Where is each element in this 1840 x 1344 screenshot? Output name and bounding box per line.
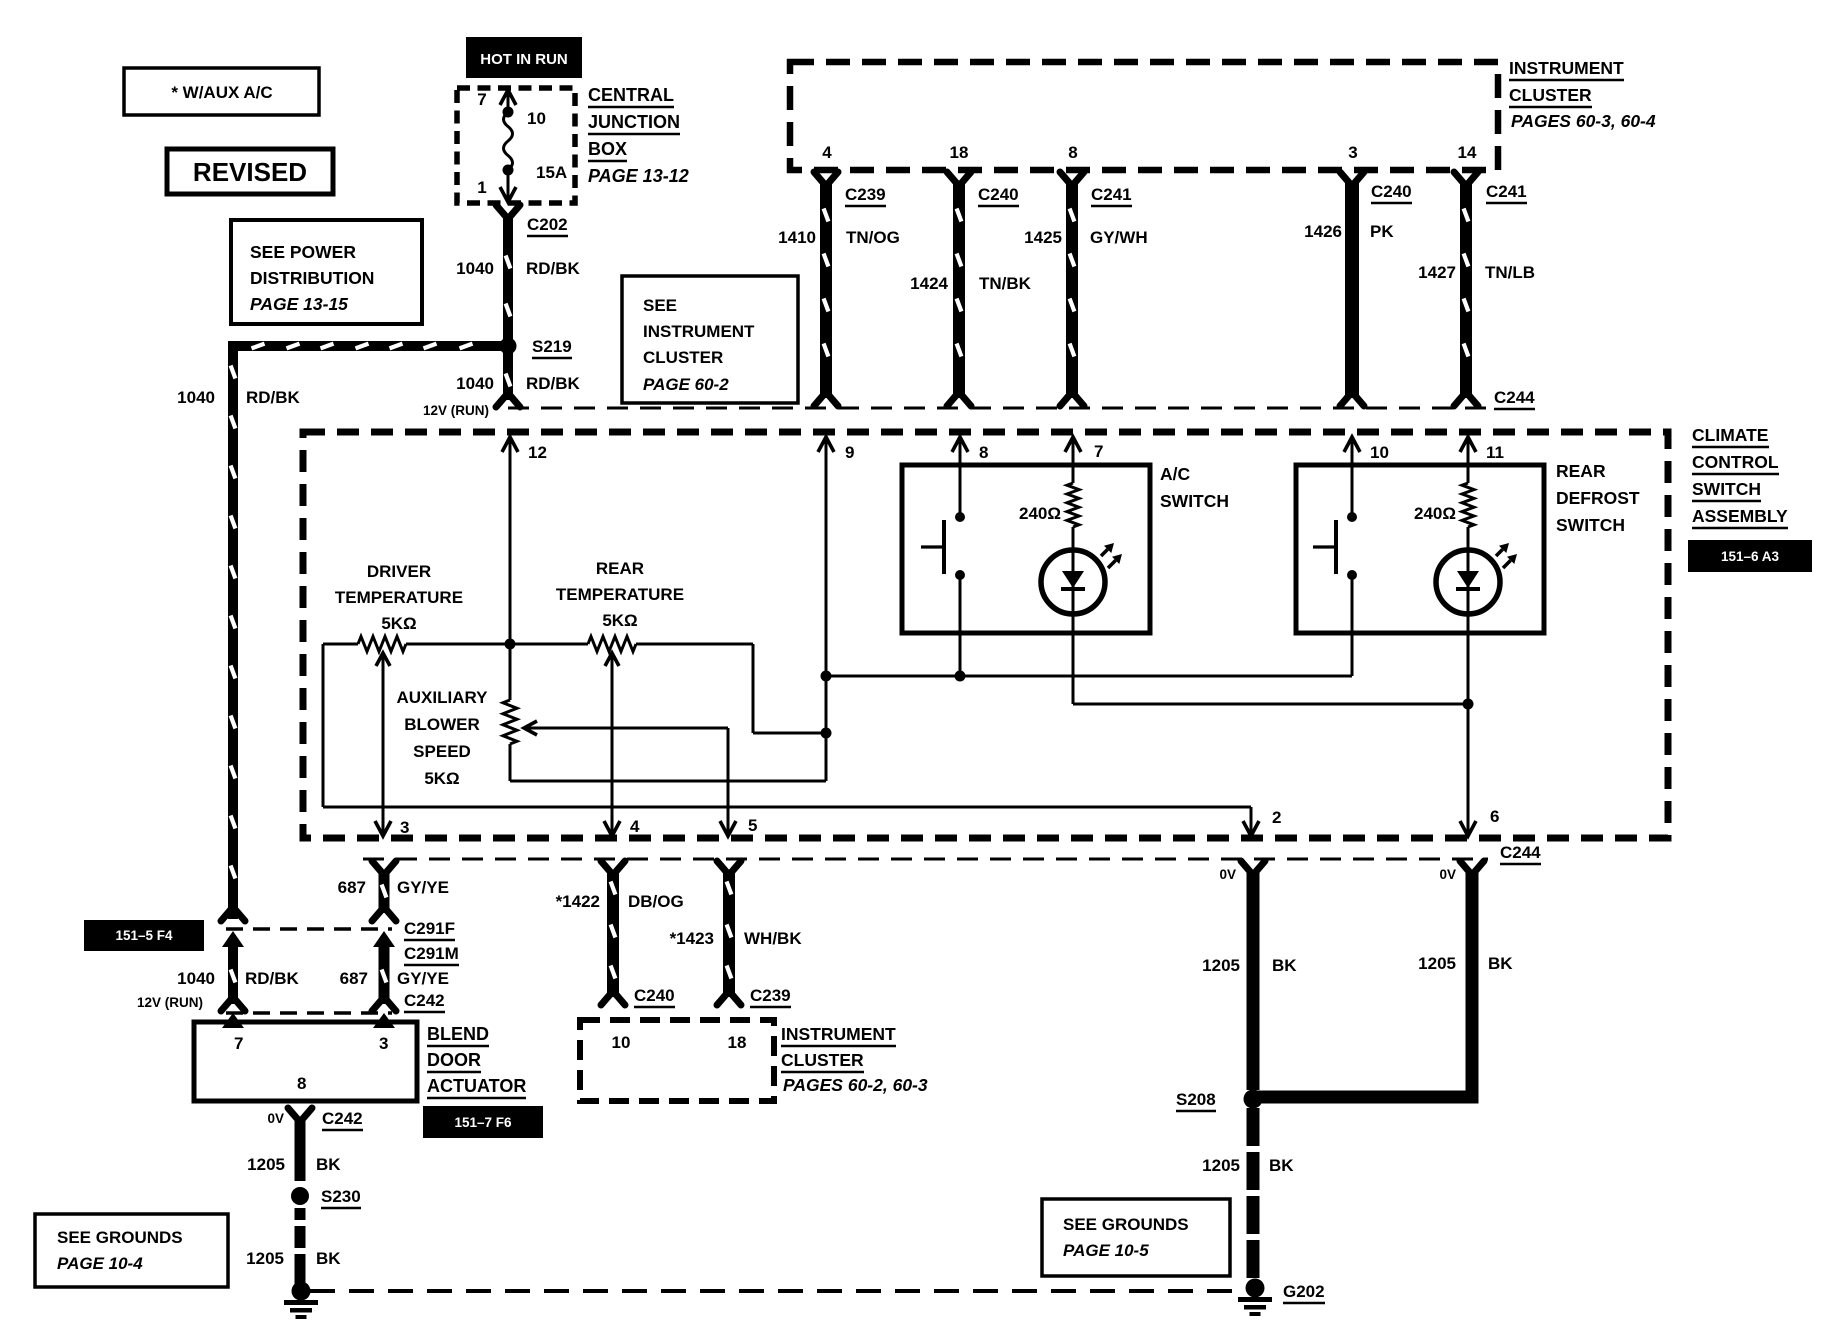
wire 687 GY/YE (pin 3 to C291F) bbox=[372, 861, 396, 921]
svg-text:INSTRUMENT: INSTRUMENT bbox=[781, 1024, 896, 1044]
svg-text:6: 6 bbox=[1490, 807, 1499, 826]
box SEE POWER DISTRIBUTION PAGE 13-15 bbox=[231, 220, 422, 324]
label 687 (upper) bbox=[338, 878, 366, 897]
junction (pin9 bus) bbox=[821, 671, 832, 682]
svg-text:C244: C244 bbox=[1500, 843, 1541, 862]
svg-text:SWITCH: SWITCH bbox=[1160, 491, 1229, 511]
svg-text:HOT IN RUN: HOT IN RUN bbox=[480, 51, 568, 68]
label *1422 bbox=[556, 892, 600, 911]
svg-text:INSTRUMENT: INSTRUMENT bbox=[643, 322, 755, 341]
pin 3 label (actuator) bbox=[379, 1034, 388, 1053]
svg-text:4: 4 bbox=[630, 817, 640, 836]
svg-text:GY/WH: GY/WH bbox=[1090, 228, 1148, 247]
label REAR DEFROST SWITCH bbox=[1556, 461, 1640, 535]
pin 9 (climate) bbox=[818, 437, 854, 733]
svg-text:RD/BK: RD/BK bbox=[526, 259, 581, 278]
svg-text:SEE POWER: SEE POWER bbox=[250, 242, 356, 262]
svg-text:TN/LB: TN/LB bbox=[1485, 263, 1535, 282]
wire driver temp end to pin 2 bbox=[323, 644, 1259, 836]
svg-text:DRIVER: DRIVER bbox=[367, 562, 431, 581]
label CLIMATE CONTROL SWITCH ASSEMBLY bbox=[1692, 425, 1788, 528]
svg-text:2: 2 bbox=[1272, 808, 1281, 827]
wire 1040 RD/BK (C291M to C242) bbox=[221, 931, 245, 1011]
svg-text:A/C: A/C bbox=[1160, 464, 1191, 484]
svg-text:240Ω: 240Ω bbox=[1019, 504, 1061, 523]
svg-text:C240: C240 bbox=[634, 986, 675, 1005]
note box W/AUX A/C bbox=[124, 68, 319, 115]
wire 1425 GY/WH (cluster pin 8 to C244) bbox=[1060, 172, 1084, 406]
svg-text:0V: 0V bbox=[267, 1111, 284, 1126]
pin 11 (climate) bbox=[1460, 437, 1504, 483]
svg-text:PAGE 10-5: PAGE 10-5 bbox=[1063, 1241, 1149, 1260]
potentiometer REAR TEMPERATURE 5K bbox=[556, 559, 684, 652]
svg-text:C291F: C291F bbox=[404, 919, 455, 938]
resistor 240 ohm (rear defrost) bbox=[1414, 483, 1474, 550]
svg-text:TN/BK: TN/BK bbox=[979, 274, 1032, 293]
svg-text:BLOWER: BLOWER bbox=[404, 715, 480, 734]
rear defrost switch button bbox=[1313, 512, 1357, 676]
pin 4 label (climate) bbox=[630, 817, 640, 836]
svg-text:SPEED: SPEED bbox=[413, 742, 471, 761]
label 1205 (pin 6 wire) bbox=[1418, 954, 1456, 973]
svg-text:5KΩ: 5KΩ bbox=[602, 611, 637, 630]
svg-text:14: 14 bbox=[1458, 143, 1477, 162]
connector C244 label (top) bbox=[1494, 388, 1535, 409]
ground G202 bbox=[1238, 1279, 1272, 1317]
pin 18 label (cluster) bbox=[950, 143, 969, 162]
label GY/YE (lower) bbox=[397, 969, 449, 988]
label CENTRAL JUNCTION BOX PAGE 13-12 bbox=[588, 85, 689, 186]
svg-text:CONTROL: CONTROL bbox=[1692, 452, 1779, 472]
label 1410 bbox=[778, 228, 816, 247]
label G202 bbox=[1283, 1282, 1325, 1303]
junction (pot return to pin9) bbox=[821, 728, 832, 739]
svg-text:5KΩ: 5KΩ bbox=[424, 769, 459, 788]
connector C242 label (bottom) bbox=[322, 1109, 363, 1130]
svg-text:TEMPERATURE: TEMPERATURE bbox=[556, 585, 684, 604]
svg-text:DB/OG: DB/OG bbox=[628, 892, 684, 911]
svg-text:1040: 1040 bbox=[456, 259, 494, 278]
label TN/LB bbox=[1485, 263, 1535, 282]
label RD/BK (lower) bbox=[245, 969, 300, 988]
fuse rating 15A bbox=[536, 163, 567, 182]
label BK (pin 6 wire) bbox=[1488, 954, 1513, 973]
pin 3 label (cluster) bbox=[1348, 143, 1357, 162]
pin 5 label (climate) bbox=[748, 816, 757, 835]
wire rear button drop bbox=[0, 0, 1, 1]
aux blower return wire bbox=[510, 733, 826, 781]
power label HOT IN RUN bbox=[466, 37, 582, 78]
pin 14 label (cluster) bbox=[1458, 143, 1477, 162]
svg-text:1205: 1205 bbox=[1202, 956, 1240, 975]
connector C241 label bbox=[1091, 185, 1132, 206]
LED indicator (rear defrost) bbox=[1436, 543, 1517, 704]
connector C242 label (top) bbox=[404, 991, 445, 1012]
wire 1040 RD/BK (S219 to C244) bbox=[503, 350, 513, 400]
pin 7 label (actuator) bbox=[234, 1034, 243, 1053]
svg-text:ASSEMBLY: ASSEMBLY bbox=[1692, 506, 1788, 526]
svg-text:PK: PK bbox=[1370, 222, 1394, 241]
label 1425 bbox=[1024, 228, 1062, 247]
svg-text:PAGES 60-2, 60-3: PAGES 60-2, 60-3 bbox=[783, 1075, 928, 1095]
svg-text:RD/BK: RD/BK bbox=[526, 374, 581, 393]
wire *1423 WH/BK (pin 5 to C239) bbox=[717, 861, 741, 1005]
pin 7 label (CJB) bbox=[477, 90, 486, 109]
svg-text:CLIMATE: CLIMATE bbox=[1692, 425, 1768, 445]
svg-text:DOOR: DOOR bbox=[427, 1050, 481, 1070]
svg-text:BLEND: BLEND bbox=[427, 1024, 489, 1044]
svg-text:C239: C239 bbox=[750, 986, 791, 1005]
rear defrost switch box bbox=[1296, 465, 1544, 633]
fuse F10 15A bbox=[500, 90, 516, 202]
svg-text:CLUSTER: CLUSTER bbox=[1509, 85, 1592, 105]
A/C switch box bbox=[902, 465, 1150, 633]
svg-text:CLUSTER: CLUSTER bbox=[781, 1050, 864, 1070]
label 1427 bbox=[1418, 263, 1456, 282]
pin 10 label (bottom cluster) bbox=[612, 1033, 631, 1052]
climate control switch assembly outline bbox=[303, 432, 1668, 838]
label S230 bbox=[321, 1187, 361, 1208]
svg-text:1205: 1205 bbox=[1418, 954, 1456, 973]
svg-text:SWITCH: SWITCH bbox=[1692, 479, 1761, 499]
wire 1426 PK (cluster pin 3 to C244) bbox=[1340, 172, 1364, 406]
label RD/BK (upper) bbox=[526, 259, 581, 278]
svg-text:1: 1 bbox=[477, 178, 486, 197]
svg-text:BOX: BOX bbox=[588, 139, 627, 159]
svg-text:PAGE 13-12: PAGE 13-12 bbox=[588, 166, 689, 186]
svg-text:BK: BK bbox=[1269, 1156, 1294, 1175]
rear temp wiper (to pin 4) bbox=[604, 653, 620, 836]
pin 18 label (bottom cluster) bbox=[728, 1033, 747, 1052]
label BLEND DOOR ACTUATOR bbox=[427, 1024, 526, 1098]
connector symbol at C244 pin 12 bbox=[496, 393, 520, 407]
label GY/YE (upper) bbox=[397, 878, 449, 897]
resistor track line (driver+rear temp) bbox=[323, 643, 753, 646]
junction (A/C button to bus) bbox=[955, 671, 966, 682]
svg-text:5KΩ: 5KΩ bbox=[381, 614, 416, 633]
pin 3 label (climate) bbox=[400, 818, 409, 837]
label 1205 (S230 upper) bbox=[247, 1155, 285, 1174]
svg-text:BK: BK bbox=[1272, 956, 1297, 975]
wire 1205 BK (pin 2 to S208) bbox=[1241, 861, 1265, 1090]
svg-text:C242: C242 bbox=[322, 1109, 363, 1128]
svg-text:240Ω: 240Ω bbox=[1414, 504, 1456, 523]
label 12V (RUN) (pin 12 feed) bbox=[423, 403, 489, 418]
grid tag 151-7 F6 bbox=[423, 1106, 543, 1138]
label DB/OG bbox=[628, 892, 684, 911]
svg-text:DEFROST: DEFROST bbox=[1556, 488, 1640, 508]
label 687 (lower) bbox=[340, 969, 368, 988]
svg-text:BK: BK bbox=[316, 1249, 341, 1268]
label BK (pin 2 wire) bbox=[1272, 956, 1297, 975]
pin 7 (climate) bbox=[1065, 437, 1103, 483]
label BK (S230 lower) bbox=[316, 1249, 341, 1268]
connector C241 label (pin 14) bbox=[1486, 182, 1527, 203]
svg-text:1040: 1040 bbox=[456, 374, 494, 393]
svg-text:1205: 1205 bbox=[246, 1249, 284, 1268]
svg-text:687: 687 bbox=[338, 878, 366, 897]
svg-text:CENTRAL: CENTRAL bbox=[588, 85, 674, 105]
svg-text:AUXILIARY: AUXILIARY bbox=[397, 688, 489, 707]
box SEE GROUNDS PAGE 10-5 bbox=[1042, 1199, 1230, 1276]
label 0V (actuator) bbox=[267, 1111, 284, 1126]
pin 10 (climate) bbox=[1344, 437, 1389, 517]
svg-text:S208: S208 bbox=[1176, 1090, 1216, 1109]
wire LED bus to pin 6 bbox=[1073, 704, 1476, 836]
svg-text:10: 10 bbox=[612, 1033, 631, 1052]
svg-text:C239: C239 bbox=[845, 185, 886, 204]
driver temp wiper (to pin 3) bbox=[375, 653, 391, 836]
svg-text:12V (RUN): 12V (RUN) bbox=[423, 403, 489, 418]
label S208 bbox=[1176, 1090, 1216, 1111]
connector C244 label (bottom) bbox=[1500, 843, 1541, 864]
wire 1040 RD/BK (C202 to S219) bbox=[503, 216, 513, 342]
svg-text:8: 8 bbox=[297, 1074, 306, 1093]
svg-text:8: 8 bbox=[1068, 143, 1077, 162]
pin 8 (climate) bbox=[952, 437, 988, 517]
pin 12 (climate) bbox=[502, 437, 547, 644]
connector C240 label bbox=[978, 185, 1019, 206]
pin 2 label (climate) bbox=[1272, 808, 1281, 827]
pin 8 label (actuator) bbox=[297, 1074, 306, 1093]
svg-text:3: 3 bbox=[1348, 143, 1357, 162]
svg-text:C240: C240 bbox=[978, 185, 1019, 204]
ground (left, body ground) bbox=[284, 1282, 318, 1320]
splice S208 bbox=[1244, 1090, 1263, 1109]
svg-text:SEE: SEE bbox=[643, 296, 677, 315]
svg-text:RD/BK: RD/BK bbox=[246, 388, 301, 407]
connector C240 label (bottom) bbox=[634, 986, 675, 1007]
svg-text:G202: G202 bbox=[1283, 1282, 1325, 1301]
svg-text:7: 7 bbox=[234, 1034, 243, 1053]
wire common bus (pin9 to switches) bbox=[826, 675, 1352, 678]
svg-text:1040: 1040 bbox=[177, 969, 215, 988]
connector line C291F/C291M bbox=[226, 927, 392, 931]
wire 1040 end at C291F bbox=[221, 907, 245, 921]
fuse number 10 bbox=[527, 109, 546, 128]
svg-text:RD/BK: RD/BK bbox=[245, 969, 300, 988]
resistor 240 ohm (A/C) bbox=[1019, 483, 1079, 550]
splice S230 bbox=[291, 1187, 309, 1205]
svg-text:BK: BK bbox=[1488, 954, 1513, 973]
svg-text:PAGE 13-15: PAGE 13-15 bbox=[250, 294, 348, 314]
label TN/OG bbox=[846, 228, 900, 247]
wire 1040 RD/BK (left vertical run) bbox=[228, 341, 238, 919]
svg-text:8: 8 bbox=[979, 443, 988, 462]
label INSTRUMENT CLUSTER PAGES 60-2, 60-3 bbox=[781, 1024, 928, 1095]
wire 1427 TN/LB (cluster pin 14 to C244) bbox=[1454, 172, 1478, 406]
connector C239 label (bottom) bbox=[750, 986, 791, 1007]
svg-text:GY/YE: GY/YE bbox=[397, 878, 449, 897]
svg-text:C202: C202 bbox=[527, 215, 568, 234]
svg-text:12: 12 bbox=[528, 443, 547, 462]
connector C202 label bbox=[527, 215, 568, 236]
svg-text:INSTRUMENT: INSTRUMENT bbox=[1509, 58, 1624, 78]
label INSTRUMENT CLUSTER PAGES 60-3, 60-4 bbox=[1509, 58, 1656, 131]
svg-text:CLUSTER: CLUSTER bbox=[643, 348, 723, 367]
svg-text:ACTUATOR: ACTUATOR bbox=[427, 1076, 526, 1096]
svg-text:PAGE 60-2: PAGE 60-2 bbox=[643, 375, 729, 394]
svg-text:151–5 F4: 151–5 F4 bbox=[115, 928, 173, 943]
label 1040 (at S219) bbox=[456, 374, 494, 393]
connector line C242 bbox=[226, 1011, 392, 1015]
svg-text:9: 9 bbox=[845, 443, 854, 462]
pin 4 label (cluster) bbox=[822, 143, 832, 162]
svg-text:TEMPERATURE: TEMPERATURE bbox=[335, 588, 463, 607]
svg-text:S219: S219 bbox=[532, 337, 572, 356]
connector C291F/C291M labels bbox=[404, 919, 459, 965]
wire 1205 BK (pin 6 to S208) bbox=[1253, 861, 1484, 1104]
svg-text:*1422: *1422 bbox=[556, 892, 600, 911]
svg-text:S230: S230 bbox=[321, 1187, 361, 1206]
svg-text:151–6 A3: 151–6 A3 bbox=[1721, 549, 1780, 564]
svg-text:REAR: REAR bbox=[1556, 461, 1606, 481]
label S219 bbox=[532, 337, 572, 358]
svg-text:10: 10 bbox=[1370, 443, 1389, 462]
svg-text:BK: BK bbox=[316, 1155, 341, 1174]
instrument cluster (top) outline bbox=[790, 62, 1498, 170]
svg-text:1424: 1424 bbox=[910, 274, 948, 293]
svg-text:4: 4 bbox=[822, 143, 832, 162]
potentiometer DRIVER TEMPERATURE 5K bbox=[335, 562, 463, 652]
svg-text:C241: C241 bbox=[1091, 185, 1132, 204]
svg-text:SEE GROUNDS: SEE GROUNDS bbox=[57, 1228, 183, 1247]
wire 1205 BK (S230 to G202) bbox=[295, 1208, 306, 1284]
label 1424 bbox=[910, 274, 948, 293]
junction (LED bus to pin 6) bbox=[1463, 699, 1474, 710]
svg-text:12V (RUN): 12V (RUN) bbox=[137, 995, 203, 1010]
svg-text:18: 18 bbox=[728, 1033, 747, 1052]
svg-text:7: 7 bbox=[477, 90, 486, 109]
svg-text:7: 7 bbox=[1094, 442, 1103, 461]
note box REVISED bbox=[167, 149, 333, 194]
label BK (S230 upper) bbox=[316, 1155, 341, 1174]
svg-text:15A: 15A bbox=[536, 163, 567, 182]
wire pot return (rear temp end down) bbox=[753, 644, 826, 733]
blend door actuator box bbox=[194, 1022, 417, 1101]
box SEE INSTRUMENT CLUSTER PAGE 60-2 bbox=[622, 276, 798, 403]
connector C242 symbol (below actuator) bbox=[288, 1108, 312, 1122]
wire 1424 TN/BK (cluster pin 18 to C244) bbox=[947, 172, 971, 406]
central junction box outline bbox=[457, 88, 575, 203]
svg-text:C291M: C291M bbox=[404, 944, 459, 963]
svg-text:0V: 0V bbox=[1439, 867, 1456, 882]
svg-text:3: 3 bbox=[379, 1034, 388, 1053]
svg-text:1426: 1426 bbox=[1304, 222, 1342, 241]
svg-text:DISTRIBUTION: DISTRIBUTION bbox=[250, 268, 374, 288]
grid tag 151-6 A3 bbox=[1688, 540, 1812, 572]
label BK (G202 wire) bbox=[1269, 1156, 1294, 1175]
svg-text:1205: 1205 bbox=[247, 1155, 285, 1174]
pin 8 label (cluster) bbox=[1068, 143, 1077, 162]
wire *1422 DB/OG (pin 4 to C240) bbox=[601, 861, 625, 1005]
svg-text:SWITCH: SWITCH bbox=[1556, 515, 1625, 535]
label 0V (pin 2) bbox=[1219, 867, 1236, 882]
connector line C244 (bottom) bbox=[363, 858, 1488, 861]
svg-text:11: 11 bbox=[1486, 443, 1504, 462]
svg-text:GY/YE: GY/YE bbox=[397, 969, 449, 988]
instrument cluster (bottom) outline bbox=[580, 1020, 774, 1101]
label 1205 (G202 wire) bbox=[1202, 1156, 1240, 1175]
svg-text:10: 10 bbox=[527, 109, 546, 128]
label 1040 (left) bbox=[177, 388, 215, 407]
svg-text:REVISED: REVISED bbox=[193, 157, 307, 187]
aux blower wiper (to pin 5) bbox=[524, 721, 736, 836]
A/C switch button bbox=[921, 512, 965, 676]
box SEE GROUNDS PAGE 10-4 bbox=[35, 1214, 228, 1287]
svg-text:C241: C241 bbox=[1486, 182, 1527, 201]
label PK bbox=[1370, 222, 1394, 241]
svg-text:C240: C240 bbox=[1371, 182, 1412, 201]
wire 1410 TN/OG (cluster pin 4 to C244) bbox=[814, 172, 838, 406]
svg-text:REAR: REAR bbox=[596, 559, 644, 578]
label 0V (pin 6) bbox=[1439, 867, 1456, 882]
label 12V (RUN) (lower) bbox=[137, 995, 203, 1010]
pin 1 label (CJB) bbox=[477, 178, 486, 197]
blend actuator pin arrows bbox=[222, 1013, 395, 1028]
svg-text:0V: 0V bbox=[1219, 867, 1236, 882]
grid tag 151-5 F4 bbox=[84, 920, 204, 951]
svg-text:18: 18 bbox=[950, 143, 969, 162]
label GY/WH bbox=[1090, 228, 1148, 247]
connector C239 label bbox=[845, 185, 886, 206]
svg-text:151–7 F6: 151–7 F6 bbox=[454, 1115, 512, 1130]
splice S219 bbox=[500, 338, 517, 355]
svg-text:TN/OG: TN/OG bbox=[846, 228, 900, 247]
wire 1205 BK (actuator to S230) bbox=[295, 1120, 306, 1181]
wire 687 GY/YE (C291M to C242) bbox=[372, 931, 396, 1011]
svg-text:5: 5 bbox=[748, 816, 757, 835]
label 1040 (lower) bbox=[177, 969, 215, 988]
label 1426 bbox=[1304, 222, 1342, 241]
svg-text:1040: 1040 bbox=[177, 388, 215, 407]
label RD/BK (left) bbox=[246, 388, 301, 407]
ground bus dashed line bbox=[310, 1289, 1243, 1293]
svg-text:JUNCTION: JUNCTION bbox=[588, 112, 680, 132]
svg-text:3: 3 bbox=[400, 818, 409, 837]
svg-text:* W/AUX A/C: * W/AUX A/C bbox=[171, 83, 272, 102]
svg-text:687: 687 bbox=[340, 969, 368, 988]
svg-text:C242: C242 bbox=[404, 991, 445, 1010]
svg-text:WH/BK: WH/BK bbox=[744, 929, 802, 948]
svg-text:*1423: *1423 bbox=[670, 929, 714, 948]
svg-text:1425: 1425 bbox=[1024, 228, 1062, 247]
connector C202 symbol bbox=[496, 205, 520, 219]
svg-text:1205: 1205 bbox=[1202, 1156, 1240, 1175]
label 1205 (pin 2 wire) bbox=[1202, 956, 1240, 975]
svg-text:1410: 1410 bbox=[778, 228, 816, 247]
svg-text:1427: 1427 bbox=[1418, 263, 1456, 282]
svg-text:PAGE 10-4: PAGE 10-4 bbox=[57, 1254, 143, 1273]
connector line C244 (top) bbox=[508, 407, 1488, 410]
svg-text:SEE GROUNDS: SEE GROUNDS bbox=[1063, 1215, 1189, 1234]
label 1205 (S230 lower) bbox=[246, 1249, 284, 1268]
connector C240 label (pin 3) bbox=[1371, 182, 1412, 203]
wire 1205 BK (S208 to G202) bbox=[1247, 1108, 1260, 1278]
label TN/BK bbox=[979, 274, 1032, 293]
LED indicator (A/C) bbox=[1041, 543, 1122, 704]
wire 1040 RD/BK (S219 branch left) bbox=[228, 341, 502, 351]
svg-text:C244: C244 bbox=[1494, 388, 1535, 407]
label RD/BK (at S219) bbox=[526, 374, 581, 393]
label WH/BK bbox=[744, 929, 802, 948]
svg-text:PAGES 60-3, 60-4: PAGES 60-3, 60-4 bbox=[1511, 111, 1656, 131]
label *1423 bbox=[670, 929, 714, 948]
label A/C SWITCH bbox=[1160, 464, 1229, 511]
junction (pin 12 to track) bbox=[505, 639, 516, 650]
label 1040 (upper) bbox=[456, 259, 494, 278]
potentiometer AUXILIARY BLOWER SPEED 5K bbox=[397, 644, 518, 788]
